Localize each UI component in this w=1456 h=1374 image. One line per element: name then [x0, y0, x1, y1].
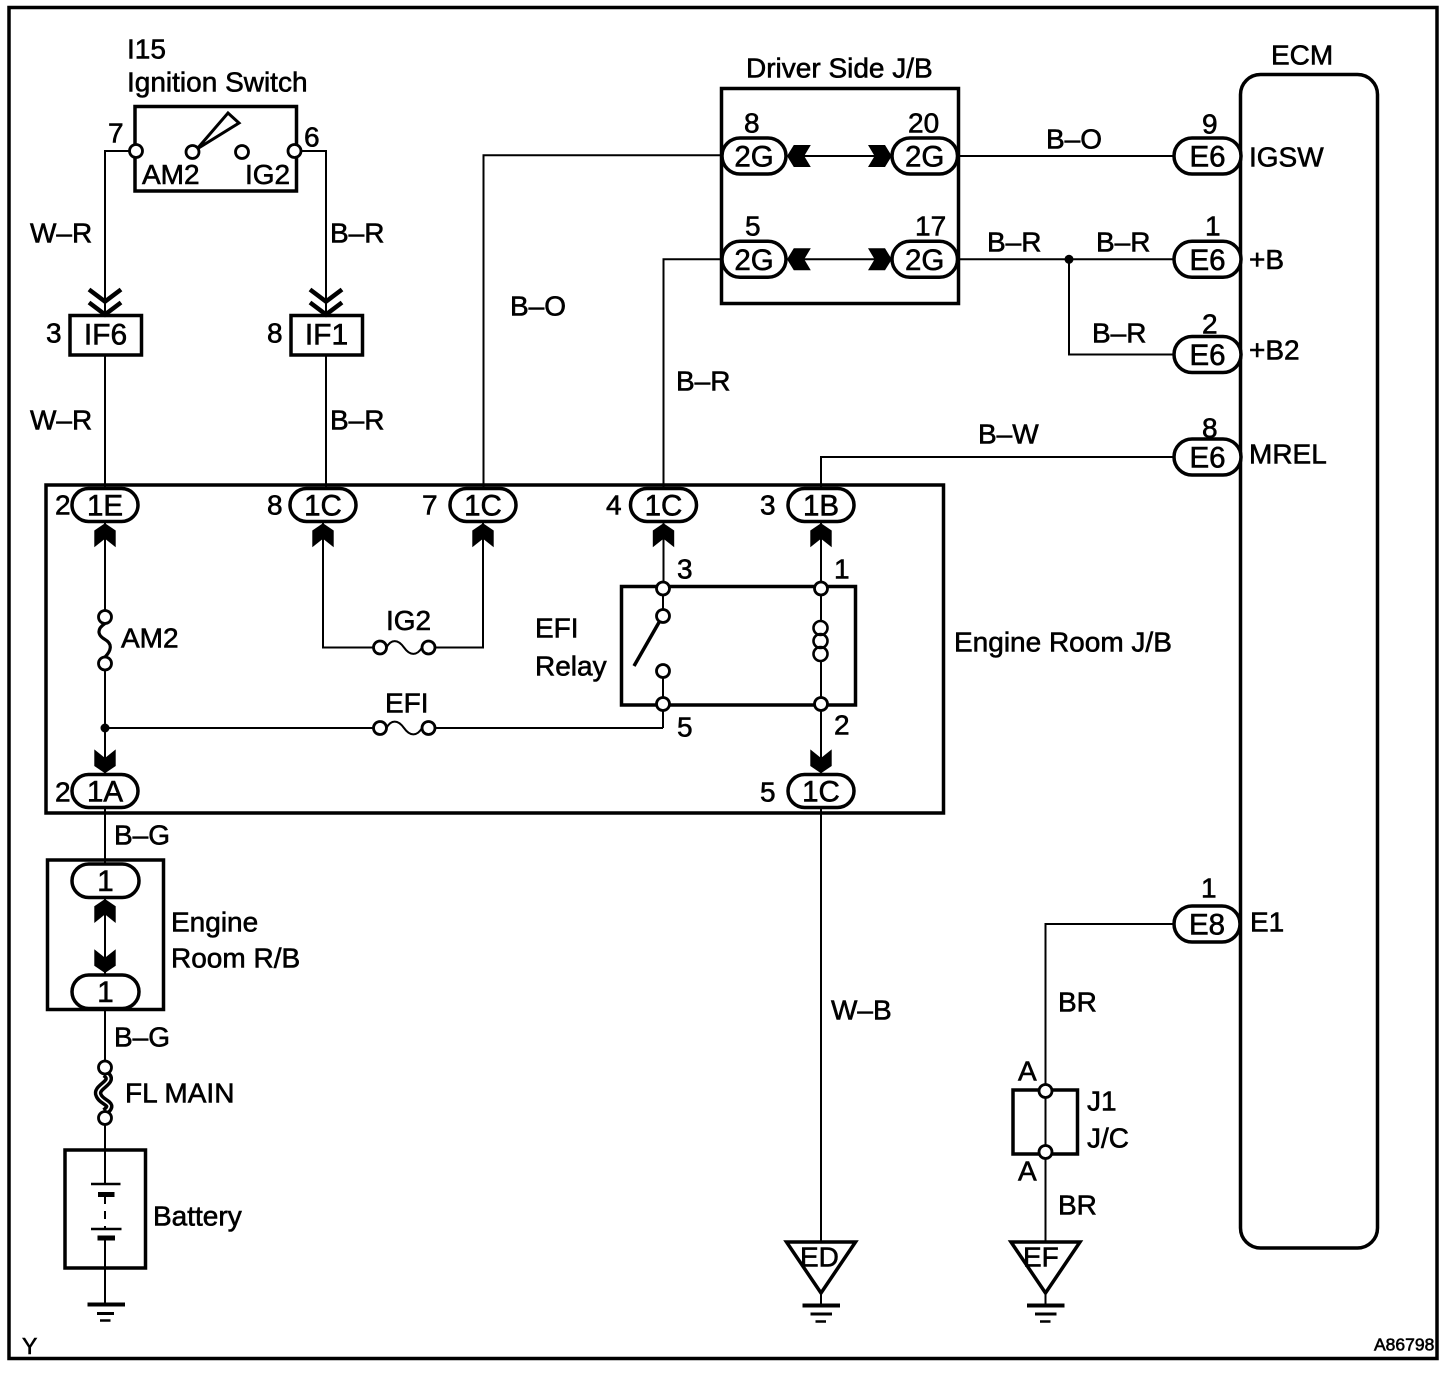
svg-text:E1: E1: [1250, 907, 1284, 938]
svg-text:1: 1: [1205, 211, 1221, 242]
svg-text:17: 17: [915, 211, 946, 242]
svg-text:A86798: A86798: [1374, 1335, 1434, 1355]
svg-text:8: 8: [1202, 413, 1218, 444]
svg-text:E8: E8: [1189, 909, 1225, 942]
svg-text:5: 5: [677, 712, 693, 743]
svg-text:8: 8: [744, 108, 760, 139]
svg-text:B–R: B–R: [330, 218, 384, 249]
svg-text:IF1: IF1: [305, 319, 348, 352]
svg-text:1: 1: [834, 554, 850, 585]
svg-text:B–W: B–W: [978, 419, 1039, 450]
svg-text:2: 2: [1202, 309, 1218, 340]
svg-text:7: 7: [422, 490, 438, 521]
svg-text:2G: 2G: [734, 141, 773, 174]
svg-text:6: 6: [304, 122, 320, 153]
svg-text:IG2: IG2: [245, 159, 290, 190]
svg-text:IG2: IG2: [386, 605, 431, 636]
svg-text:FL MAIN: FL MAIN: [125, 1078, 234, 1109]
svg-text:E6: E6: [1189, 339, 1225, 372]
svg-text:A: A: [1018, 1056, 1037, 1087]
svg-text:EF: EF: [1023, 1242, 1059, 1273]
svg-text:B–R: B–R: [676, 366, 730, 397]
svg-text:ECM: ECM: [1271, 40, 1333, 71]
svg-text:BR: BR: [1058, 987, 1097, 1018]
svg-text:Ignition Switch: Ignition Switch: [127, 67, 308, 98]
svg-text:Room R/B: Room R/B: [171, 943, 300, 974]
svg-text:3: 3: [677, 554, 693, 585]
svg-text:1: 1: [97, 976, 113, 1009]
svg-text:7: 7: [108, 118, 124, 149]
svg-text:AM2: AM2: [121, 623, 179, 654]
svg-text:8: 8: [267, 490, 283, 521]
svg-text:E6: E6: [1189, 442, 1225, 475]
svg-text:W–B: W–B: [831, 995, 892, 1026]
svg-text:8: 8: [267, 318, 283, 349]
svg-text:2G: 2G: [734, 244, 773, 277]
svg-text:B–R: B–R: [330, 405, 384, 436]
svg-text:I15: I15: [127, 34, 166, 65]
svg-text:+B: +B: [1249, 244, 1284, 275]
svg-text:1: 1: [97, 865, 113, 898]
svg-text:B–O: B–O: [1046, 124, 1102, 155]
svg-text:2: 2: [55, 490, 71, 521]
svg-text:B–G: B–G: [114, 820, 170, 851]
svg-text:2: 2: [834, 710, 850, 741]
svg-text:Y: Y: [22, 1333, 37, 1359]
svg-text:E6: E6: [1189, 244, 1225, 277]
svg-text:ED: ED: [800, 1242, 839, 1273]
svg-text:1A: 1A: [87, 776, 123, 809]
svg-text:W–R: W–R: [30, 218, 92, 249]
svg-text:IF6: IF6: [84, 319, 127, 352]
svg-text:1C: 1C: [464, 490, 502, 523]
svg-text:2G: 2G: [905, 244, 944, 277]
svg-text:Battery: Battery: [153, 1201, 242, 1232]
svg-text:2G: 2G: [905, 141, 944, 174]
svg-text:J/C: J/C: [1087, 1123, 1129, 1154]
svg-text:EFI: EFI: [535, 613, 579, 644]
svg-text:A: A: [1018, 1156, 1037, 1187]
svg-text:B–O: B–O: [510, 291, 566, 322]
svg-text:1C: 1C: [645, 490, 683, 523]
svg-text:20: 20: [908, 108, 939, 139]
svg-text:5: 5: [760, 777, 776, 808]
svg-text:B–G: B–G: [114, 1022, 170, 1053]
svg-text:1C: 1C: [304, 490, 342, 523]
svg-text:5: 5: [745, 211, 761, 242]
svg-text:Driver Side J/B: Driver Side J/B: [746, 53, 933, 84]
svg-text:B–R: B–R: [1096, 227, 1150, 258]
svg-text:3: 3: [46, 318, 62, 349]
svg-text:W–R: W–R: [30, 405, 92, 436]
svg-text:3: 3: [760, 490, 776, 521]
svg-text:EFI: EFI: [385, 688, 429, 719]
svg-text:B–R: B–R: [1092, 318, 1146, 349]
svg-text:+B2: +B2: [1249, 335, 1300, 366]
svg-text:IGSW: IGSW: [1249, 142, 1324, 173]
svg-text:2: 2: [55, 777, 71, 808]
svg-text:Engine Room J/B: Engine Room J/B: [954, 627, 1172, 658]
svg-text:AM2: AM2: [142, 159, 200, 190]
svg-text:BR: BR: [1058, 1190, 1097, 1221]
svg-text:1E: 1E: [87, 490, 123, 523]
svg-text:4: 4: [606, 490, 622, 521]
svg-text:Engine: Engine: [171, 907, 258, 938]
svg-text:Relay: Relay: [535, 651, 607, 682]
svg-text:9: 9: [1202, 109, 1218, 140]
svg-text:E6: E6: [1189, 141, 1225, 174]
svg-text:MREL: MREL: [1249, 439, 1327, 470]
svg-text:1B: 1B: [803, 490, 839, 523]
svg-text:1: 1: [1201, 873, 1217, 904]
svg-text:1C: 1C: [802, 776, 840, 809]
svg-text:J1: J1: [1087, 1086, 1117, 1117]
svg-text:B–R: B–R: [987, 227, 1041, 258]
